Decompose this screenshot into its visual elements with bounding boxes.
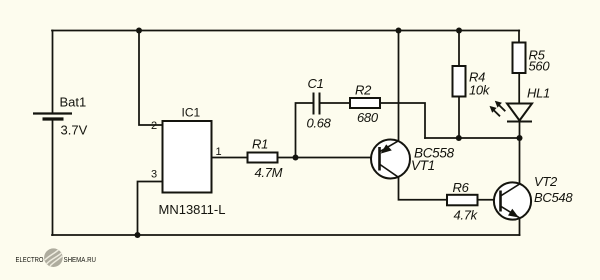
resistor R1 (248, 153, 278, 163)
svg-text:3.7V: 3.7V (61, 123, 88, 138)
LED arrow 2 (495, 101, 506, 111)
junction dot top rail pin2 (136, 28, 142, 34)
svg-text:2: 2 (151, 120, 157, 132)
wire R2 to mid node (380, 103, 425, 138)
svg-text:C1: C1 (308, 76, 324, 91)
wire left battery positive (52, 31, 54, 113)
wire IC1 pin3 branch (138, 182, 163, 236)
svg-text:3: 3 (151, 169, 157, 181)
capacitor C1 (314, 93, 320, 115)
resistor R2 (350, 98, 380, 108)
wire bottom rail (52, 234, 520, 236)
transistor VT2 BC548 (494, 182, 531, 219)
svg-text:BC548: BC548 (534, 190, 573, 205)
junction dot top rail VT1 emitter (396, 28, 402, 34)
wire C1 to R2 (320, 102, 350, 104)
wire top rail (52, 30, 519, 32)
svg-text:SHEMA.RU: SHEMA.RU (64, 255, 97, 264)
wire VT2 emitter to bottom rail (519, 218, 521, 235)
svg-text:680: 680 (357, 110, 379, 125)
resistor R4 (453, 66, 466, 97)
transistor VT1 BC558 (371, 140, 410, 179)
wire R5 to LED (518, 73, 520, 104)
watermark electroshema.ru (16, 248, 97, 267)
svg-text:VT2: VT2 (534, 174, 558, 189)
wire IC1 pin1 to R1 (212, 157, 248, 159)
wire node to C1 (296, 103, 314, 158)
IC U1 box MN13811-L (163, 121, 212, 193)
svg-text:HL1: HL1 (527, 86, 550, 101)
junction dot mid rail LED cathode (517, 135, 523, 141)
svg-text:0.68: 0.68 (307, 116, 332, 131)
resistor R5 (513, 43, 526, 74)
wire R4 bottom lead (458, 97, 460, 139)
svg-text:560: 560 (529, 59, 551, 74)
svg-text:R6: R6 (453, 180, 470, 195)
svg-text:Bat1: Bat1 (60, 95, 87, 110)
junction dot mid rail R4 bottom (456, 135, 462, 141)
wire R6 to VT2 base (478, 199, 495, 201)
battery Bat1 (33, 114, 72, 120)
svg-text:MN13811-L: MN13811-L (159, 202, 226, 217)
junction dot top rail R4 (456, 28, 462, 34)
svg-text:R2: R2 (355, 83, 372, 98)
svg-text:R1: R1 (252, 137, 268, 152)
wire VT1 collector to R6 (399, 178, 448, 200)
wire IC1 pin2 branch (139, 31, 163, 126)
wire left battery negative to bottom (52, 120, 54, 236)
svg-text:1: 1 (216, 146, 222, 158)
wire R4 top lead (458, 31, 460, 67)
resistor R6 (447, 195, 478, 206)
wire VT1 emitter to top rail (398, 31, 400, 140)
wire R1 to VT1 base (278, 157, 380, 159)
svg-text:ELECTRO: ELECTRO (16, 255, 44, 264)
svg-text:IC1: IC1 (182, 106, 201, 120)
svg-text:VT1: VT1 (411, 158, 435, 173)
svg-text:4.7M: 4.7M (255, 165, 283, 180)
wire LED cathode to VT2 collector (519, 122, 521, 185)
svg-text:4.7k: 4.7k (454, 208, 479, 223)
LED HL1 (490, 101, 533, 122)
node junction after R1 (293, 155, 299, 161)
junction dot bottom rail pin3 (135, 232, 141, 238)
wire R5 top lead (518, 31, 520, 43)
svg-text:10k: 10k (469, 83, 491, 98)
LED arrow 1 (490, 106, 501, 116)
wire mid rail (425, 137, 520, 139)
